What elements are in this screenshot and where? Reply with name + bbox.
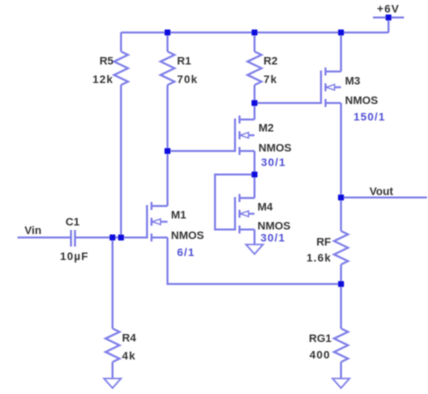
svg-text:NMOS: NMOS [345,95,378,107]
svg-text:R1: R1 [177,56,191,68]
svg-text:12k: 12k [92,74,113,86]
svg-text:4k: 4k [122,351,136,363]
svg-text:150/1: 150/1 [354,112,386,124]
svg-text:M3: M3 [345,76,360,88]
svg-text:R2: R2 [264,56,278,68]
svg-text:C1: C1 [66,217,80,229]
svg-text:RF: RF [316,237,331,249]
svg-text:M1: M1 [171,210,186,222]
svg-text:6/1: 6/1 [177,247,195,259]
svg-text:M4: M4 [258,202,274,214]
svg-text:400: 400 [309,350,330,362]
svg-text:30/1: 30/1 [261,233,286,245]
svg-text:R5: R5 [99,56,113,68]
svg-text:Vin: Vin [25,225,42,237]
svg-text:Vout: Vout [370,186,394,198]
svg-text:1.6k: 1.6k [306,253,331,265]
svg-text:+6V: +6V [377,4,400,16]
svg-text:NMOS: NMOS [258,221,291,233]
svg-text:R4: R4 [122,333,137,345]
svg-text:RG1: RG1 [309,333,332,345]
svg-text:70k: 70k [177,74,198,86]
svg-text:30/1: 30/1 [261,157,286,169]
svg-text:7k: 7k [264,74,278,86]
svg-text:10µF: 10µF [60,251,89,263]
svg-text:M2: M2 [259,123,274,135]
svg-text:NMOS: NMOS [259,143,292,155]
svg-text:NMOS: NMOS [171,230,204,242]
